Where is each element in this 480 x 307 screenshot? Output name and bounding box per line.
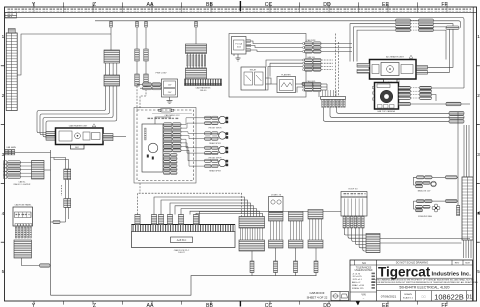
- svg-text:108-22: 108-22: [178, 252, 185, 254]
- svg-text:□ □: □ □: [422, 295, 426, 298]
- svg-text:1: 1: [2, 34, 5, 39]
- svg-text:Z: Z: [93, 303, 96, 307]
- svg-text:.XX ±0.25: .XX ±0.25: [352, 276, 362, 278]
- svg-text:BB: BB: [206, 2, 213, 8]
- svg-text:CC: CC: [265, 2, 273, 8]
- svg-text:BB: BB: [206, 303, 213, 307]
- svg-text:ANG ±1°: ANG ±1°: [352, 281, 361, 284]
- svg-text:ROOF I/O: ROOF I/O: [349, 188, 358, 190]
- svg-text:REAR SPKR: REAR SPKR: [209, 142, 221, 145]
- svg-text:DD: DD: [323, 303, 331, 307]
- svg-text:AA: AA: [147, 2, 154, 8]
- svg-text:EE: EE: [382, 2, 389, 8]
- svg-text:FF: FF: [441, 2, 447, 8]
- svg-text:3: 3: [2, 152, 5, 157]
- svg-text:FRONT SPKR: FRONT SPKR: [209, 127, 222, 129]
- svg-text:FRAC ±1/16: FRAC ±1/16: [352, 284, 365, 287]
- svg-text:SCALE 1:1: SCALE 1:1: [403, 297, 414, 300]
- svg-text:CC: CC: [265, 303, 273, 307]
- svg-text:A/C HEATER UNIT: A/C HEATER UNIT: [386, 55, 404, 58]
- svg-text:Z: Z: [93, 2, 96, 8]
- svg-text:FINISH 125: FINISH 125: [352, 288, 364, 290]
- svg-text:△: △: [398, 80, 400, 83]
- svg-text:5: 5: [2, 269, 5, 274]
- svg-text:108622B: 108622B: [434, 292, 464, 301]
- svg-text:Tigercat: Tigercat: [378, 264, 431, 279]
- svg-text:DD: DD: [323, 2, 331, 8]
- svg-text:REV: REV: [455, 263, 460, 265]
- svg-text:AA: AA: [147, 303, 154, 307]
- svg-text:07/06/2021: 07/06/2021: [381, 295, 397, 299]
- svg-text:CAB MAIN: CAB MAIN: [6, 146, 16, 149]
- svg-text:FLASHER: FLASHER: [281, 74, 291, 77]
- svg-text:UNLESS NOTED: UNLESS NOTED: [355, 270, 373, 272]
- svg-text:VIN: VIN: [361, 292, 365, 296]
- svg-text:CAB TOP CAMERA: CAB TOP CAMERA: [377, 110, 395, 113]
- svg-text:TOLERANCES: TOLERANCES: [356, 267, 372, 270]
- svg-text:CAB FUSE PANEL: CAB FUSE PANEL: [15, 204, 33, 207]
- svg-text:2: 2: [2, 93, 5, 98]
- svg-text:USED OR REPRODUCED WITHOUT WRI: USED OR REPRODUCED WITHOUT WRITTEN PERMI…: [371, 281, 479, 284]
- svg-text:RADIO / LIGHTER: RADIO / LIGHTER: [14, 183, 31, 186]
- svg-text:EE: EE: [382, 303, 389, 307]
- svg-text:DRAWN: DRAWN: [404, 293, 412, 296]
- svg-text:RELAY: RELAY: [250, 69, 257, 72]
- svg-text:Industries Inc.: Industries Inc.: [432, 272, 472, 278]
- svg-text:BEACON 12V: BEACON 12V: [418, 189, 431, 192]
- svg-text:PWR CONV: PWR CONV: [156, 72, 168, 74]
- svg-text:108-00: 108-00: [200, 90, 207, 92]
- svg-text:F1 15A: F1 15A: [235, 43, 242, 46]
- svg-text:.X ±0.75: .X ±0.75: [352, 273, 361, 275]
- svg-text:N/A: N/A: [362, 262, 366, 265]
- svg-text:4: 4: [2, 211, 5, 216]
- svg-text:10 A: 10 A: [237, 46, 242, 49]
- svg-text:01: 01: [466, 295, 472, 301]
- svg-text:FREEZER FAN: FREEZER FAN: [418, 215, 432, 218]
- svg-text:FF: FF: [441, 303, 447, 307]
- svg-text:A+B PLC: A+B PLC: [177, 239, 187, 242]
- svg-text:.XXX ±0.1: .XXX ±0.1: [352, 279, 363, 281]
- svg-text:CAB HEATER UNIT: CAB HEATER UNIT: [69, 124, 88, 127]
- svg-text:CAB RADIO 12V: CAB RADIO 12V: [164, 114, 180, 117]
- svg-text:DOME LTS: DOME LTS: [271, 194, 282, 196]
- svg-text:SHEET 4 OF 22: SHEET 4 OF 22: [307, 295, 328, 299]
- svg-text:REAR SPKR: REAR SPKR: [209, 169, 221, 172]
- svg-text:50HD44TR ELECTRICAL, 4L920: 50HD44TR ELECTRICAL, 4L920: [399, 285, 449, 289]
- svg-text:SIZE: SIZE: [465, 263, 470, 265]
